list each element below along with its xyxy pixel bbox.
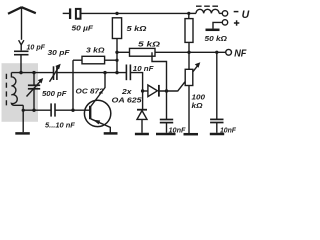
node junction detector input: [141, 89, 144, 92]
node junction 500pF top: [32, 71, 35, 74]
resistor R 50k: [185, 13, 193, 52]
ground tank: [15, 132, 29, 135]
node junction 500pF bottom: [32, 109, 35, 112]
svg-text:U: U: [242, 9, 250, 21]
ground output bypass: [210, 133, 224, 136]
node junction collector top: [103, 71, 106, 74]
antenna: [8, 7, 36, 40]
terminal plus: [222, 20, 227, 25]
arrowhead 500pF: [38, 78, 43, 84]
tuned-circuit highlight box: [2, 63, 39, 122]
ground D2: [135, 133, 149, 136]
svg-text:50 kΩ: 50 kΩ: [205, 34, 228, 43]
transistor Q1 emitter: [91, 119, 111, 133]
arrowhead wiper: [195, 62, 201, 67]
wire plus terminal to ground: [213, 22, 222, 28]
label plus sign: [234, 20, 239, 25]
node junction NF/bypass: [215, 51, 218, 54]
terminal minus U: [222, 11, 227, 16]
wire 5k to detector L-path: [152, 52, 167, 91]
node junction rail / choke: [187, 12, 190, 15]
trimmer capacitor C 30pF: [50, 66, 60, 82]
wire 3k feedback to base: [72, 60, 74, 110]
ground filter cap left: [156, 133, 176, 136]
capacitor C 50uF electrolytic: [63, 8, 117, 19]
node junction antenna/tank: [19, 71, 22, 74]
svg-text:30 pF: 30 pF: [48, 48, 70, 57]
node junction tank bottom: [22, 109, 25, 112]
transistor Q1 emitter arrow (PNP): [93, 120, 100, 125]
svg-text:50 µF: 50 µF: [72, 24, 94, 33]
node junction pot/NF: [187, 51, 190, 54]
transistor Q1 OC872 circle: [84, 100, 110, 126]
wire coupling cap to detector: [130, 73, 142, 91]
terminal NF: [226, 49, 232, 55]
label minus sign: [234, 11, 239, 13]
resistor R 3k: [73, 56, 117, 64]
node junction 3k right: [115, 59, 118, 62]
inductor L1 coil core (dashed): [5, 74, 7, 107]
node junction collector net: [115, 71, 118, 74]
resistor R 5k vertical: [112, 18, 121, 39]
wire 5k down to collector node: [116, 39, 118, 73]
wire detector to potentiometer wiper: [177, 64, 199, 92]
svg-text:5 kΩ: 5 kΩ: [138, 39, 160, 48]
wire 10pF to tank top: [20, 55, 22, 73]
transistor Q1 collector: [91, 73, 105, 107]
capacitor C 10nF filter left: [160, 91, 173, 133]
svg-text:10nF: 10nF: [169, 126, 186, 135]
ground plus terminal: [206, 29, 220, 32]
diode D2 OA625 shunt: [137, 91, 147, 133]
wire top supply rail: [117, 12, 189, 14]
svg-text:5...10 nF: 5...10 nF: [45, 120, 75, 129]
capacitor C 10nF output bypass: [210, 52, 223, 133]
node junction rail / 5k: [115, 12, 118, 15]
diode D1 OA625 series: [143, 85, 178, 97]
capacitor C antenna 10pF: [14, 51, 29, 54]
node junction base / 3k feedback: [71, 109, 74, 112]
svg-text:kΩ: kΩ: [192, 101, 203, 110]
svg-text:10 nF: 10 nF: [133, 64, 154, 73]
antenna plug connector: [19, 40, 24, 50]
variable capacitor C 500pF: [27, 73, 42, 111]
arrowhead 30pF: [55, 64, 60, 70]
ground emitter: [104, 132, 118, 135]
node junction 5k/5k horizontal: [115, 51, 118, 54]
wire coil bottom to ground: [22, 105, 24, 132]
svg-text:500 pF: 500 pF: [42, 89, 67, 98]
svg-text:OC 872: OC 872: [76, 87, 105, 96]
ground pot: [184, 133, 199, 136]
wire pot top to NF line: [188, 52, 190, 69]
svg-text:3 kΩ: 3 kΩ: [86, 45, 105, 54]
wire pot bottom to ground: [188, 86, 190, 134]
svg-text:5 kΩ: 5 kΩ: [127, 24, 147, 33]
wire tank bottom / base line: [23, 109, 89, 111]
wire 5k horizontal feed / NF line: [117, 51, 226, 53]
svg-text:NF: NF: [234, 49, 247, 60]
capacitor C 10nF coupling: [126, 65, 130, 81]
wire tank top rail: [11, 72, 126, 74]
potentiometer R 100k body: [185, 69, 193, 85]
capacitor C 5...10nF: [51, 103, 55, 116]
node junction filter cap: [165, 89, 168, 92]
resistor R 5k horizontal: [130, 48, 156, 56]
choke L2 with core: [189, 6, 222, 13]
svg-text:10nF: 10nF: [220, 126, 237, 135]
svg-text:10 pF: 10 pF: [27, 42, 46, 51]
svg-text:OA 625: OA 625: [112, 96, 143, 105]
transistor Q1 base bar: [89, 106, 91, 119]
inductor L1 coil: [11, 73, 23, 106]
